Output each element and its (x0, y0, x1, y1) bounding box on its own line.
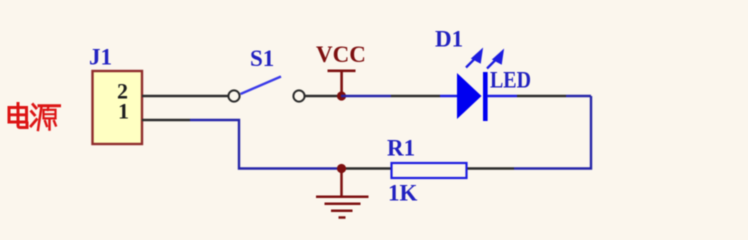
svg-text:VCC: VCC (316, 42, 366, 67)
connector J1 (89, 45, 142, 145)
svg-text:LED: LED (490, 68, 531, 93)
LED D1 (435, 27, 531, 122)
wire: LED cathode to right corner (blue, black pin, blue) (487, 95, 517, 97)
power VCC (316, 42, 366, 101)
resistor R1 (345, 136, 514, 206)
wire: switch to VCC node (black) (305, 95, 341, 97)
switch S1 (228, 46, 304, 102)
wire: J1 pin 1 (black pin segment) (142, 119, 190, 121)
wire: VCC node to LED anode (blue then black pin then blue) (341, 95, 391, 97)
svg-text:J1: J1 (89, 45, 112, 70)
svg-text:1K: 1K (388, 181, 418, 206)
wire: right side down and back to resistor (514, 96, 591, 169)
ground (316, 164, 369, 218)
label 电源 (9, 104, 60, 131)
wire: J1 pin 2 to switch (black pin segment) (142, 95, 229, 97)
svg-text:1: 1 (118, 99, 129, 124)
svg-text:R1: R1 (387, 136, 415, 161)
svg-text:D1: D1 (435, 27, 463, 52)
svg-text:S1: S1 (250, 46, 274, 71)
wire: pin1 to ground node (blue) (190, 120, 338, 169)
